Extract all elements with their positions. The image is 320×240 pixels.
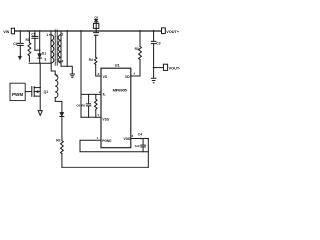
svg-text:1: 1 bbox=[46, 33, 48, 37]
svg-text:U1: U1 bbox=[115, 62, 121, 67]
svg-text:VS: VS bbox=[103, 75, 108, 79]
svg-text:MP6905: MP6905 bbox=[113, 88, 128, 93]
svg-text:1uF: 1uF bbox=[135, 144, 141, 148]
svg-text:3: 3 bbox=[44, 57, 46, 61]
svg-text:R3: R3 bbox=[135, 47, 139, 51]
svg-text:4: 4 bbox=[133, 72, 135, 76]
svg-text:D1: D1 bbox=[42, 52, 46, 56]
svg-text:PGND: PGND bbox=[102, 139, 112, 143]
svg-text:5: 5 bbox=[98, 113, 100, 117]
svg-text:Q1: Q1 bbox=[44, 90, 49, 94]
svg-text:C4: C4 bbox=[138, 132, 142, 136]
svg-text:4: 4 bbox=[62, 59, 64, 63]
svg-text:1: 1 bbox=[97, 136, 99, 140]
svg-text:R4: R4 bbox=[89, 58, 93, 62]
svg-text:R6: R6 bbox=[81, 103, 85, 107]
svg-text:VDD: VDD bbox=[123, 137, 131, 141]
svg-text:C1: C1 bbox=[13, 42, 17, 46]
svg-text:R1: R1 bbox=[26, 38, 30, 42]
svg-text:IL: IL bbox=[103, 93, 106, 97]
svg-text:8: 8 bbox=[98, 72, 100, 76]
svg-text:VIN: VIN bbox=[3, 30, 9, 34]
svg-text:VSS: VSS bbox=[102, 118, 109, 122]
svg-text:VOUT-: VOUT- bbox=[169, 67, 181, 71]
svg-text:VOUT+: VOUT+ bbox=[166, 30, 180, 34]
svg-text:C6: C6 bbox=[76, 103, 80, 107]
svg-text:2: 2 bbox=[61, 32, 63, 36]
svg-text:R2: R2 bbox=[56, 139, 60, 143]
svg-text:VD: VD bbox=[125, 75, 130, 79]
svg-text:C3: C3 bbox=[156, 42, 160, 46]
svg-text:C5: C5 bbox=[31, 32, 35, 36]
svg-text:PWM: PWM bbox=[12, 92, 23, 97]
svg-text:Q2: Q2 bbox=[94, 15, 98, 19]
svg-text:6: 6 bbox=[132, 134, 134, 138]
